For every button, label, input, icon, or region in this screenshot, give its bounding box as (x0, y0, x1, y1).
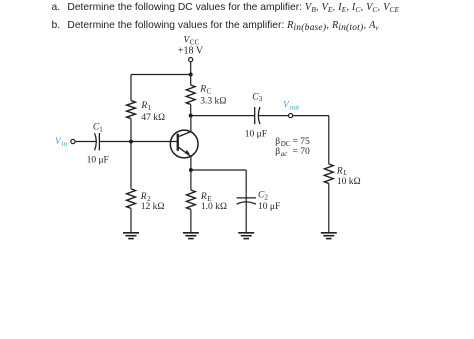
resistor RC (186, 85, 195, 104)
svg-text:ac: ac (281, 150, 289, 158)
wire emitter vertical to node (190, 157, 192, 171)
svg-text:out: out (290, 102, 301, 111)
terminal Vcc (189, 58, 193, 62)
terminal Vout (289, 114, 293, 118)
wire RC to collector node (190, 105, 192, 116)
svg-text:= 70: = 70 (293, 147, 310, 157)
wire R1 stem (130, 75, 132, 101)
junction dot emitter node (189, 168, 193, 172)
svg-text:3: 3 (259, 95, 263, 103)
wire emitter node to RE (190, 170, 192, 190)
wire top node to RC top (190, 75, 192, 86)
terminal Vin (71, 139, 75, 143)
wire collector node to transistor (190, 116, 192, 132)
svg-text:β: β (275, 147, 280, 157)
wire collector node right to C3 (191, 115, 255, 117)
resistor R2 (127, 189, 136, 208)
svg-text:10 μF: 10 μF (87, 155, 109, 165)
svg-text:+18 V: +18 V (178, 46, 204, 57)
svg-text:12 kΩ: 12 kΩ (141, 202, 165, 212)
capacitor C2 (237, 197, 256, 199)
svg-text:R: R (199, 85, 206, 95)
svg-text:1.0 kΩ: 1.0 kΩ (201, 202, 227, 212)
svg-text:in: in (61, 139, 67, 148)
wire emitter node right to C2 (191, 169, 246, 171)
resistor R1 (127, 101, 136, 119)
junction dot collector node (189, 114, 193, 118)
svg-text:DC: DC (281, 140, 291, 148)
capacitor C1 (95, 133, 97, 150)
capacitor C3 (254, 107, 256, 124)
transistor base bar (177, 134, 179, 151)
svg-text:2: 2 (264, 193, 268, 201)
resistor RE (186, 190, 195, 209)
svg-text:β: β (275, 137, 280, 147)
wire base node down to R2 (130, 142, 132, 189)
problem line a (52, 2, 61, 13)
wire R1 to base node (130, 119, 132, 142)
wire RE to ground (190, 210, 192, 233)
wire corner down to RL (328, 116, 330, 164)
svg-text:L: L (342, 169, 347, 177)
wire R2 to ground (130, 208, 132, 232)
wire Vin to C1 (75, 141, 96, 143)
svg-text:R: R (140, 192, 147, 202)
problem line b (52, 20, 61, 31)
transistor Q1 circle (170, 130, 198, 158)
ground R2 (123, 233, 139, 239)
transistor collector lead (179, 132, 191, 137)
junction dot base node (129, 140, 133, 144)
svg-text:10 μF: 10 μF (245, 130, 267, 140)
junction dot top node (189, 73, 193, 77)
svg-text:R: R (140, 101, 147, 111)
transistor emitter arrow (185, 150, 190, 155)
resistor RL (324, 164, 333, 183)
transistor emitter lead (179, 147, 191, 156)
wire C3 to corner (259, 115, 329, 117)
wire C1 to base (99, 141, 177, 143)
svg-text:C: C (207, 87, 212, 95)
svg-text:10 kΩ: 10 kΩ (337, 177, 361, 187)
wire C2 stem (245, 170, 247, 232)
svg-text:10 μF: 10 μF (258, 202, 280, 212)
svg-text:1: 1 (148, 104, 152, 112)
svg-text:47 kΩ: 47 kΩ (141, 113, 165, 123)
wire RL to ground (328, 184, 330, 233)
svg-text:1: 1 (99, 125, 103, 133)
svg-text:= 75: = 75 (293, 137, 310, 147)
wire Vcc terminal to top node (190, 62, 192, 75)
ground RL (321, 233, 337, 239)
ground RE (183, 233, 199, 239)
svg-text:R: R (200, 192, 207, 202)
svg-text:3.3 kΩ: 3.3 kΩ (200, 97, 226, 107)
svg-text:R: R (336, 166, 343, 176)
wire top horizontal to R1 branch (131, 74, 191, 76)
ground C2 (238, 233, 254, 239)
